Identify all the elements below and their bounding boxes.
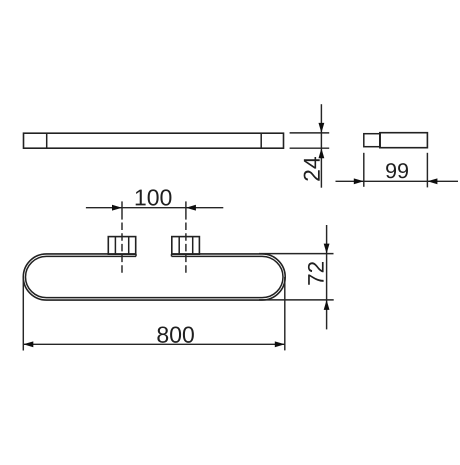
dimension 99 dimension line bbox=[336, 180, 459, 182]
dimension 72 arrow down bbox=[324, 244, 330, 254]
dimension 100 arrow left bbox=[186, 205, 196, 211]
dimension 24 dimension line bbox=[320, 104, 322, 188]
left post outline bbox=[108, 237, 135, 255]
left post inner line b bbox=[128, 237, 130, 255]
dimension 99 arrow left bbox=[427, 178, 437, 184]
dimension 99 extension line left bbox=[363, 153, 365, 187]
dimension 72 extension line top bbox=[259, 253, 334, 255]
right post centerline extension bbox=[185, 201, 187, 219]
dimension 24 extension line bottom bbox=[290, 147, 330, 149]
front view top edge left cap bbox=[135, 254, 137, 257]
left post centerline extension bbox=[121, 201, 123, 219]
side view holder large rect bbox=[380, 133, 428, 148]
dimension 800 extension line left bbox=[22, 277, 24, 351]
dimension 800 dimension line bbox=[23, 343, 285, 345]
front view top edge right cap bbox=[171, 254, 173, 257]
right post outline bbox=[172, 237, 200, 255]
right post centerline bbox=[185, 223, 187, 274]
dimension 72 arrow up bbox=[324, 300, 330, 310]
dimension 100 arrow right bbox=[112, 205, 122, 211]
dimension 800 label bbox=[157, 327, 193, 343]
side view wall plate small rect bbox=[364, 134, 380, 147]
dimension 800 extension line right bbox=[284, 277, 286, 350]
dimension 72 label bbox=[308, 262, 324, 285]
dimension 99 arrow right bbox=[354, 178, 364, 184]
front view bar outer outline bbox=[23, 254, 285, 300]
dimension 99 label bbox=[386, 163, 408, 178]
right post inner line b bbox=[192, 237, 194, 255]
dimension 72 dimension line bbox=[326, 225, 328, 329]
dimension 100 label bbox=[136, 189, 172, 205]
dimension 24 arrow up bbox=[319, 148, 325, 158]
dimension 800 arrow right bbox=[275, 341, 285, 347]
dimension 800 arrow left bbox=[23, 341, 33, 347]
top view right end line bbox=[260, 133, 262, 148]
dimension 72 extension line bottom bbox=[259, 299, 334, 301]
dimension 24 label bbox=[304, 157, 320, 181]
left post inner line a bbox=[114, 237, 116, 255]
left post centerline bbox=[121, 223, 123, 274]
right post inner line a bbox=[178, 237, 180, 255]
dimension 24 arrow down bbox=[319, 123, 325, 133]
front view bar inner outline bbox=[26, 256, 284, 297]
top view left end line bbox=[46, 133, 48, 148]
dimension 100 dimension line bbox=[86, 207, 223, 209]
dimension 99 extension line right bbox=[426, 153, 428, 188]
top view bar outline bbox=[24, 133, 284, 148]
dimension 24 extension line top bbox=[290, 132, 330, 134]
